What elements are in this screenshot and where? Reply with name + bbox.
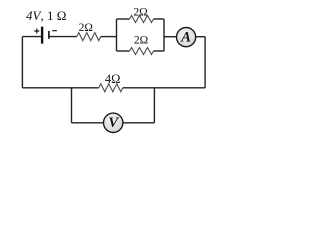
ammeter A: [177, 27, 196, 46]
wire: right side of main loop: [204, 37, 206, 88]
battery + terminal mark: [34, 29, 39, 34]
svg-text:2Ω: 2Ω: [134, 34, 148, 46]
wire: voltmeter branch right drop: [153, 88, 155, 123]
wire: top branch right lead: [154, 18, 165, 20]
wire: bottom loop, R4 to bottom-right corner: [123, 87, 205, 89]
node: parallel network right junction bus: [163, 19, 165, 51]
wire: voltmeter bottom right lead: [123, 122, 154, 124]
wire: top-left corner to battery + plate: [22, 36, 41, 38]
svg-text:V: V: [108, 115, 119, 131]
wire: bottom loop, left segment to R4: [22, 87, 98, 89]
battery (4V, 1 ohm internal) long positive plate: [41, 27, 43, 44]
wire: R1 to parallel network: [101, 36, 117, 38]
wire: top branch left lead: [117, 18, 130, 20]
svg-text:2Ω: 2Ω: [133, 6, 147, 18]
wire: bottom branch left lead: [117, 50, 130, 52]
battery short negative plate: [48, 31, 50, 39]
wire: bottom branch right lead: [154, 50, 165, 52]
svg-text:2Ω: 2Ω: [79, 22, 93, 34]
wire: voltmeter bottom left lead: [72, 122, 104, 124]
svg-text:4Ω: 4Ω: [105, 72, 121, 86]
battery - terminal mark: [52, 30, 57, 32]
wire: battery to resistor R1: [49, 36, 77, 38]
resistor R1 (2 ohm series): [77, 33, 101, 41]
wire: voltmeter branch left drop: [71, 88, 73, 123]
node: parallel network left junction bus: [116, 19, 118, 51]
resistor R2 (2 ohm, top parallel branch): [130, 16, 154, 23]
wire: ammeter to top-right corner: [196, 36, 205, 38]
svg-text:4V, 1 Ω: 4V, 1 Ω: [26, 8, 66, 23]
resistor R4 (4 ohm): [99, 84, 123, 92]
voltmeter V: [104, 113, 123, 132]
svg-text:A: A: [180, 30, 191, 46]
resistor R3 (2 ohm, bottom parallel branch): [130, 48, 154, 55]
wire: parallel network to ammeter: [164, 36, 176, 38]
wire: left side of main loop: [21, 37, 23, 88]
